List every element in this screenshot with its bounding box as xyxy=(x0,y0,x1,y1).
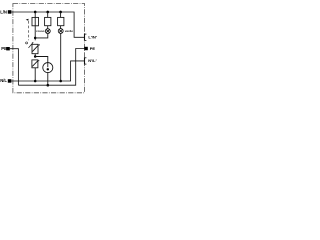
terminal N'/L' bracket xyxy=(85,58,87,65)
svg-text:L/N: L/N xyxy=(0,9,7,14)
wire varistor RV2 to N bus xyxy=(34,68,36,81)
wire PE bus xyxy=(18,49,84,86)
linkage arrowhead xyxy=(26,19,29,21)
wire GDT to PE bus xyxy=(47,73,49,86)
varistor RV2 xyxy=(32,60,39,68)
wire N bus xyxy=(11,61,84,81)
varistor RV1 xyxy=(32,44,40,53)
wire node A to GDT xyxy=(35,57,48,63)
terminal PE left xyxy=(6,47,10,50)
terminal N/L xyxy=(8,79,12,83)
lamp verde xyxy=(58,29,63,34)
node dot bus x35 xyxy=(34,11,37,14)
gas discharge tube GDT xyxy=(43,63,53,73)
wire stub fuse F1 xyxy=(34,12,36,26)
node dot bus x48 xyxy=(46,11,49,14)
terminal L/N xyxy=(8,10,12,14)
svg-text:rosso: rosso xyxy=(36,29,44,33)
wire stub fuse F3 xyxy=(60,12,62,17)
fuse/disconnector F2 xyxy=(45,17,51,25)
svg-text:N/L: N/L xyxy=(0,78,7,83)
terminal L'/N' bracket xyxy=(85,34,87,41)
svg-text:L′/N′: L′/N′ xyxy=(88,35,96,40)
terminal PE right xyxy=(84,47,88,50)
fuse/disconnector F3 xyxy=(58,17,64,25)
node dot RV2 on N bus xyxy=(34,80,37,83)
linkage circle xyxy=(26,42,28,44)
GDT electrode dot xyxy=(47,68,49,70)
node dot bus x61 xyxy=(59,11,62,14)
svg-text:PE: PE xyxy=(90,46,96,51)
wire stub lamp rosso xyxy=(47,26,49,29)
lamp rosso xyxy=(45,29,50,34)
thermal disconnect linkage (dashed) xyxy=(28,21,30,40)
svg-text:verde: verde xyxy=(65,29,73,33)
svg-text:N′/L′: N′/L′ xyxy=(88,58,96,63)
disconnector arrow xyxy=(29,43,33,48)
wire varistor RV1 to node A xyxy=(34,54,36,57)
enclosure dash-dot border xyxy=(13,4,85,93)
node dot verde on N bus xyxy=(59,80,62,83)
wire stub lamp verde xyxy=(60,26,62,29)
node dot GDT on PE bus xyxy=(47,84,50,87)
wire lamp rosso elbow to node A1 xyxy=(35,34,48,38)
wire lamp verde down to N bus xyxy=(60,34,62,82)
node A dot xyxy=(34,55,37,58)
fuse/disconnector F1 xyxy=(32,17,39,25)
wire rect1 to node xyxy=(34,26,36,41)
node A1 dot xyxy=(34,37,37,40)
wire top bus L xyxy=(11,12,84,37)
wire stub fuse F2 xyxy=(47,12,49,17)
wire PE left down xyxy=(10,49,19,85)
